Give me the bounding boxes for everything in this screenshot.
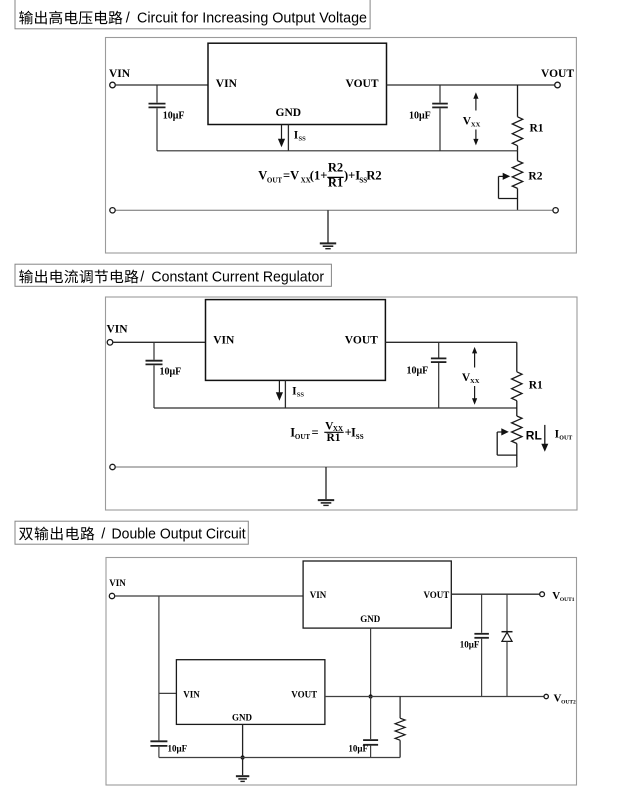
capacitor C7 stem bottom <box>481 639 483 697</box>
svg-text:XX: XX <box>470 378 480 385</box>
svg-text:OUT: OUT <box>295 433 311 441</box>
terminal VIN (circuit 3) <box>109 593 114 598</box>
wire U3 GND stem <box>370 628 372 696</box>
terminal VIN (circuit 1) <box>110 82 116 88</box>
svg-text:VOUT: VOUT <box>423 590 449 600</box>
wire VOUT2 rail <box>325 696 544 698</box>
terminal bottom-left (circuit 1) <box>110 208 115 213</box>
svg-text:VOUT: VOUT <box>291 689 317 699</box>
capacitor C1 stem top <box>156 85 158 103</box>
resistor R2 lead top <box>517 151 519 161</box>
junction dot U3 GND / VOUT2 rail <box>369 694 373 698</box>
svg-text:GND: GND <box>232 713 253 723</box>
svg-text:XX: XX <box>471 122 481 129</box>
RL wiper arrow line <box>497 431 501 433</box>
svg-text:R1: R1 <box>529 380 543 392</box>
svg-text:VIN: VIN <box>109 68 131 80</box>
capacitor C6 stem bottom <box>370 746 372 758</box>
resistor R1 (circuit 2) lead top <box>516 342 518 372</box>
voltage arrow VXX lower line (circuit 2) <box>474 386 476 399</box>
svg-text:R1: R1 <box>326 432 340 444</box>
wire lower rail (circuit 1) <box>157 150 518 152</box>
regulator U1 box <box>208 43 387 124</box>
diode D1 cathode bar <box>502 631 513 633</box>
svg-text:10μF: 10μF <box>168 744 188 754</box>
resistor RL lead top <box>516 408 518 416</box>
RL wiper arrow head <box>501 428 509 435</box>
capacitor C5 stem bottom <box>158 747 160 758</box>
svg-text:VIN: VIN <box>109 578 126 588</box>
voltage arrow VXX down head (circuit 2) <box>472 398 477 405</box>
svg-text:VIN: VIN <box>310 590 327 600</box>
resistor R3 zigzag <box>395 718 405 740</box>
svg-text:OUT2: OUT2 <box>561 699 576 705</box>
wire VIN to U3 <box>115 595 303 597</box>
ground symbol (circuit 2) <box>325 467 327 499</box>
voltage arrow VXX down head <box>473 139 478 146</box>
schematic frame 2 <box>106 297 578 510</box>
svg-text:R2: R2 <box>528 171 542 183</box>
terminal VOUT2 <box>544 694 548 698</box>
svg-text:SS: SS <box>356 433 364 441</box>
current arrow IOUT head <box>541 444 548 452</box>
svg-text:Double Output Circuit: Double Output Circuit <box>112 527 246 543</box>
wire branch to U4 VIN <box>159 692 177 694</box>
wire U4 GND stem <box>242 724 244 757</box>
svg-text:VOUT: VOUT <box>346 78 379 90</box>
wire VOUT (circuit 2) <box>385 341 516 343</box>
bottom rail (circuit 2) <box>115 466 517 468</box>
capacitor C7 stem top <box>481 594 483 633</box>
wire VIN to U2 <box>113 341 206 343</box>
resistor R2 zigzag <box>512 161 522 189</box>
capacitor C1 plates <box>149 103 166 105</box>
svg-text:OUT: OUT <box>559 436 572 442</box>
voltage arrow VXX up head (circuit 2) <box>472 347 477 354</box>
svg-text:10μF: 10μF <box>163 111 185 122</box>
resistor R1 (circuit 1) zigzag <box>512 117 522 146</box>
svg-text:GND: GND <box>276 107 302 119</box>
svg-text:R1: R1 <box>530 123 544 135</box>
title 1 Chinese text <box>19 11 122 25</box>
terminal bottom-right (circuit 1) <box>553 208 558 213</box>
svg-text:R1: R1 <box>328 175 343 189</box>
svg-text:R2: R2 <box>328 160 343 174</box>
R2 wiper arrow line <box>499 175 504 177</box>
svg-text:OUT: OUT <box>267 176 283 184</box>
capacitor C1 stem bottom <box>156 108 158 151</box>
junction dot U4 GND / bottom rail <box>241 755 245 759</box>
svg-text:10μF: 10μF <box>407 366 429 377</box>
capacitor C4 plates <box>431 357 447 359</box>
svg-text:R2: R2 <box>366 169 381 183</box>
diode D1 triangle <box>502 632 512 641</box>
capacitor C2 plates <box>432 103 448 105</box>
resistor R2 lead bottom <box>517 188 519 210</box>
wire U1 GND to lower rail <box>287 125 289 151</box>
svg-text:VIN: VIN <box>216 78 238 90</box>
capacitor C6 stem top <box>370 697 372 740</box>
capacitor C2 stem top <box>439 85 441 103</box>
svg-text:10μF: 10μF <box>460 640 480 650</box>
schematic frame 1 <box>106 38 577 254</box>
resistor R1 lead bottom <box>517 146 519 151</box>
voltage arrow VXX upper line (circuit 2) <box>474 353 476 368</box>
terminal VIN (circuit 2) <box>107 340 113 346</box>
RL wiper return wire vertical <box>496 432 498 455</box>
ground symbol (circuit 3) <box>242 758 244 776</box>
voltage arrow VXX lower line <box>475 130 477 140</box>
wire lower rail (circuit 2) <box>154 407 517 409</box>
svg-text:=V: =V <box>283 169 299 183</box>
capacitor C3 plates <box>146 360 163 362</box>
svg-text:RL: RL <box>526 429 542 443</box>
terminal VOUT (circuit 1) <box>555 82 561 88</box>
diode D1 stem bottom <box>506 641 508 696</box>
svg-text:VOUT: VOUT <box>541 68 574 80</box>
title box 3 <box>15 521 248 544</box>
svg-text:=: = <box>312 426 319 440</box>
terminal VOUT1 <box>540 592 545 597</box>
capacitor C4 stem bottom <box>438 363 440 408</box>
svg-text:Circuit for Increasing Output: Circuit for Increasing Output Voltage <box>137 11 367 27</box>
regulator U2 box <box>206 300 386 381</box>
title box 1 <box>15 0 370 29</box>
resistor R3 lead top <box>399 697 401 719</box>
svg-text:SS: SS <box>299 135 307 142</box>
capacitor C2 stem bottom <box>439 108 441 151</box>
capacitor C5 plates <box>150 740 167 742</box>
regulator U4 box (lower) <box>176 660 325 725</box>
bottom rail (circuit 3) <box>159 757 400 759</box>
capacitor C7 plates <box>474 633 489 635</box>
wire vertical branch (circuit 3) <box>158 596 160 740</box>
svg-text:VIN: VIN <box>213 335 235 347</box>
resistor R1 (circuit 1) lead top <box>517 85 519 117</box>
title box 2 <box>15 264 331 286</box>
svg-text:VIN: VIN <box>107 324 129 336</box>
capacitor C6 plates <box>363 739 378 741</box>
svg-text:SS: SS <box>297 391 305 398</box>
wire VOUT to terminal (circuit 1) <box>387 84 555 86</box>
R2 wiper return wire horizontal <box>499 198 518 200</box>
svg-text:VOUT: VOUT <box>345 335 378 347</box>
regulator U3 box (upper) <box>303 561 451 628</box>
capacitor C3 stem top <box>153 342 155 360</box>
current arrow ISS head (circuit 2) <box>276 392 283 401</box>
svg-text:VIN: VIN <box>183 689 200 699</box>
resistor R3 lead bottom <box>399 740 401 757</box>
svg-text:10μF: 10μF <box>160 367 182 378</box>
wire U3 VOUT to terminal VOUT1 <box>451 593 540 595</box>
resistor RL zigzag <box>512 416 522 444</box>
capacitor C3 stem bottom <box>153 365 155 408</box>
resistor R1 (circuit 2) zigzag <box>512 372 522 401</box>
R2 wiper arrow head <box>503 173 511 180</box>
wire VIN to U1 <box>115 84 208 86</box>
svg-text:V: V <box>258 169 267 183</box>
R2 wiper return wire vertical <box>498 176 500 198</box>
title 3 Chinese text <box>19 527 94 541</box>
resistor R1 (circuit 2) lead bottom <box>516 401 518 408</box>
schematic frame 3 <box>106 558 577 786</box>
svg-text:)+I: )+I <box>344 169 360 183</box>
current arrow ISS head <box>278 139 285 148</box>
current arrow ISS (circuit 1) line <box>281 125 283 140</box>
formula IOUT=VXX/R1+ISS <box>290 420 363 444</box>
voltage arrow VXX up head (circuit 1) <box>473 92 478 99</box>
capacitor C4 stem top <box>438 342 440 357</box>
diode D1 stem top <box>506 594 508 632</box>
bottom rail (circuit 1) <box>115 209 553 211</box>
svg-text:10μF: 10μF <box>409 111 431 122</box>
svg-text:10μF: 10μF <box>348 744 368 754</box>
svg-text:GND: GND <box>360 614 381 624</box>
svg-text:Constant Current Regulator: Constant Current Regulator <box>151 270 324 286</box>
svg-text:OUT1: OUT1 <box>560 597 575 603</box>
svg-text:(1+: (1+ <box>310 169 328 183</box>
terminal bottom-left (circuit 2) <box>110 464 115 469</box>
wire U2 GND to lower rail <box>284 380 286 408</box>
current arrow IOUT line <box>544 425 546 444</box>
voltage arrow VXX upper line <box>475 98 477 111</box>
formula VOUT=VXX(1+R2/R1)+ISS*R2 <box>258 160 381 189</box>
ground symbol (circuit 1) <box>327 210 329 242</box>
title 2 Chinese text <box>19 270 138 284</box>
resistor RL lead bottom <box>516 444 518 468</box>
current arrow ISS (circuit 2) line <box>278 380 280 392</box>
RL wiper return wire horizontal <box>497 454 517 456</box>
